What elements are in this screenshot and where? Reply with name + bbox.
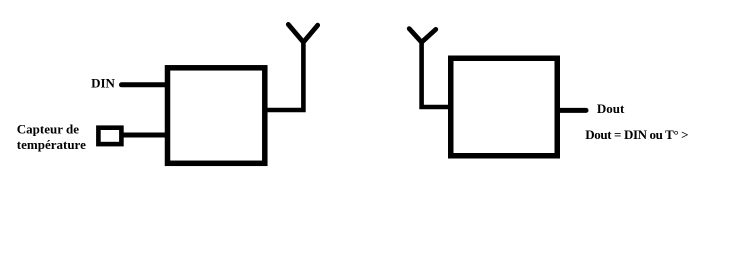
svg-text:Capteur de: Capteur de: [17, 122, 79, 137]
svg-text:Dout: Dout: [597, 101, 625, 116]
svg-text:température: température: [17, 137, 86, 152]
svg-text:DIN: DIN: [91, 76, 115, 91]
svg-text:Dout = DIN ou T° >: Dout = DIN ou T° >: [585, 127, 688, 142]
